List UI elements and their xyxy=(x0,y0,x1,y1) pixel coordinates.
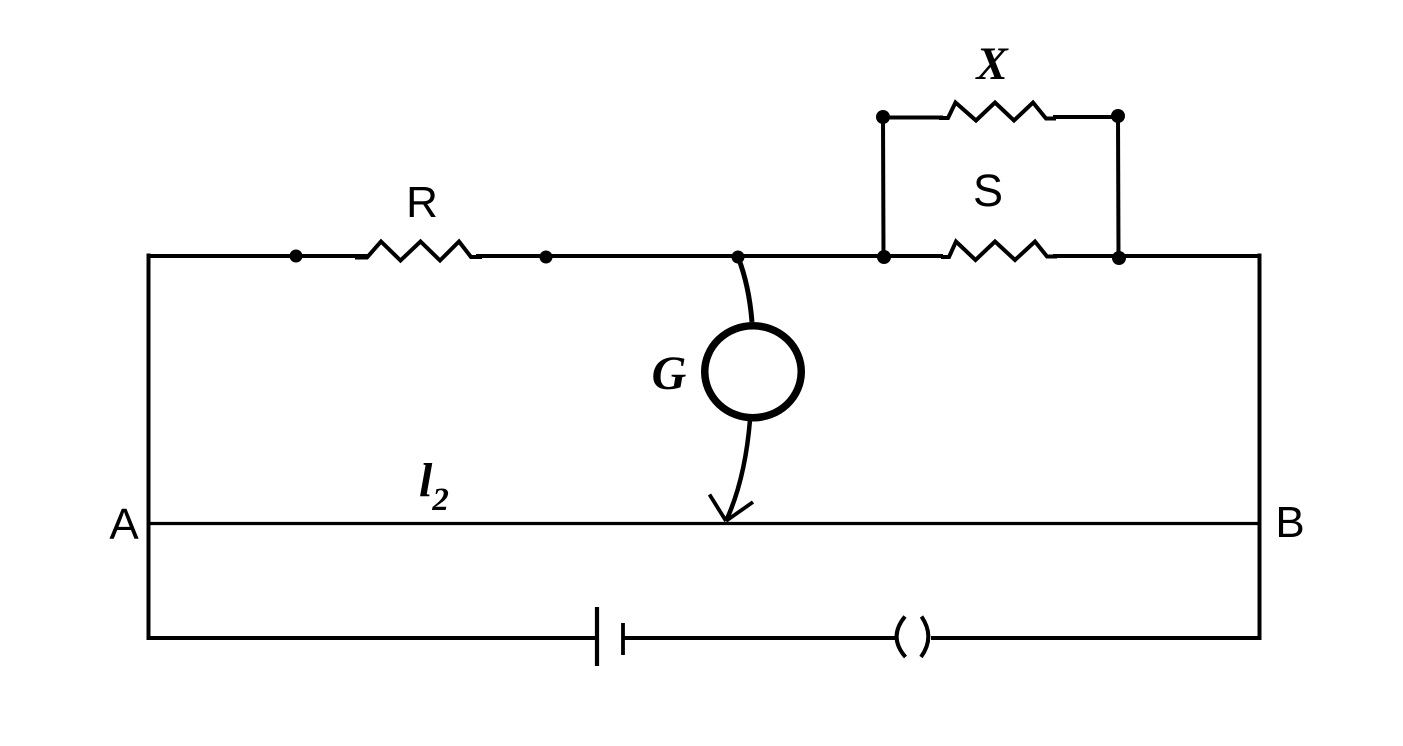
node dot left of R xyxy=(290,250,303,263)
wire AB: bridge slide wire xyxy=(148,522,1259,525)
resistor R zigzag xyxy=(355,242,482,261)
svg-text:R: R xyxy=(406,178,438,227)
wire: top conductor right segment xyxy=(1053,254,1261,258)
wire: bottom conductor middle segment xyxy=(623,636,895,640)
wire: right vertical conductor xyxy=(1258,254,1262,641)
node dot: right end of parallel pair (bottom) xyxy=(1112,251,1126,265)
battery cell: short negative plate xyxy=(621,623,625,655)
svg-text:l2: l2 xyxy=(419,454,449,518)
galvanometer G circle xyxy=(705,326,802,418)
node dot: right end of X branch (top) xyxy=(1111,109,1125,123)
wire: bottom conductor left segment xyxy=(148,636,597,640)
wire: galvanometer upper lead (curved) xyxy=(738,257,752,322)
wire: galvanometer lower lead curving to jockey arrow xyxy=(726,420,750,521)
node dot: left end of parallel pair (bottom) xyxy=(877,250,891,264)
wire: left riser of X branch xyxy=(881,117,886,255)
wire: bottom conductor right segment xyxy=(931,636,1259,640)
key K: right contact arc xyxy=(921,617,928,658)
svg-text:B: B xyxy=(1275,498,1304,547)
arrowhead barb left xyxy=(710,495,727,522)
node dot: galvanometer tap junction xyxy=(732,251,745,264)
wire: right riser of X branch xyxy=(1116,116,1121,256)
svg-text:G: G xyxy=(652,347,687,400)
node dot: left end of X branch (top) xyxy=(876,110,890,124)
svg-text:S: S xyxy=(973,165,1003,216)
node dot right of R xyxy=(540,251,553,264)
wire: top conductor left segment xyxy=(148,254,368,258)
key K: left contact arc xyxy=(897,617,906,658)
wire: X branch right horizontal xyxy=(1053,115,1118,119)
resistor S zigzag xyxy=(941,242,1057,261)
battery cell: long positive plate xyxy=(595,607,599,666)
svg-text:A: A xyxy=(109,500,139,549)
wire: top conductor middle segment xyxy=(476,254,943,258)
resistor X zigzag xyxy=(939,103,1056,121)
wire: left vertical conductor xyxy=(147,254,151,641)
svg-text:X: X xyxy=(974,38,1009,90)
arrowhead barb right xyxy=(726,502,753,521)
wire: X branch left horizontal xyxy=(883,116,943,120)
